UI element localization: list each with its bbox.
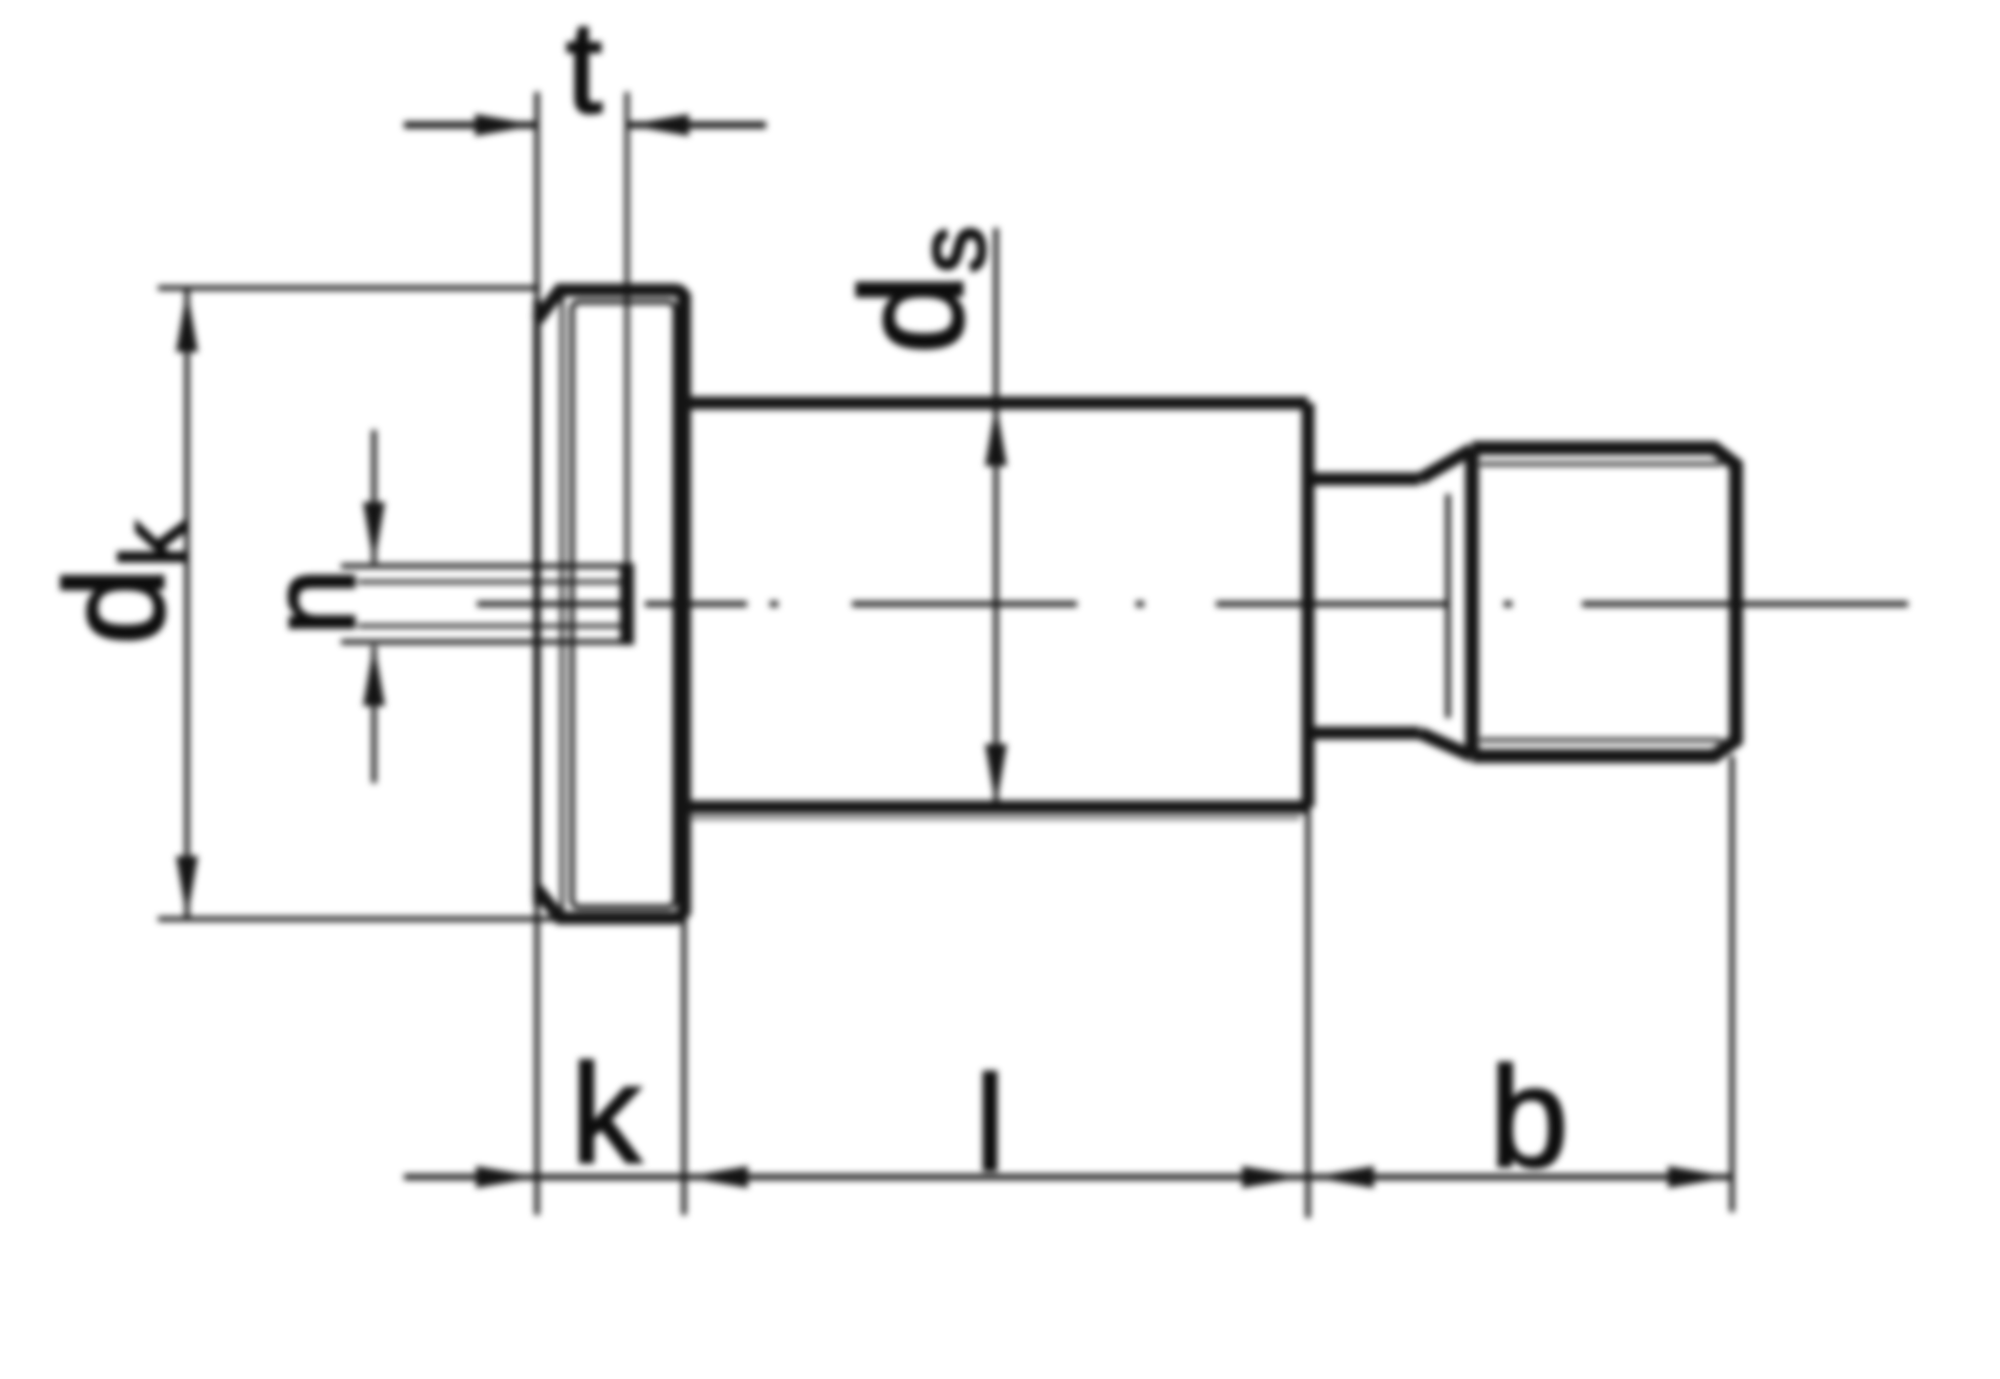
dimension n: upper arrow: [372, 430, 377, 563]
svg-text:ds: ds: [831, 226, 1005, 354]
neck top edge: [1308, 473, 1420, 486]
t extension line left (x=537, above head): [535, 92, 540, 300]
slot outer top edge: [341, 564, 627, 569]
dimension ds: dimension line: [994, 228, 999, 806]
head inner rectangle (face chamfer ring): [572, 302, 675, 907]
extension line below shoulder right face (l/b): [1306, 807, 1311, 1218]
l right arrowhead (pointing right): [1242, 1166, 1304, 1188]
dimension t: left tail with arrow: [404, 122, 537, 129]
dimension ds: upper arrowhead: [985, 404, 1007, 466]
slot bottom (bold vertical, depth t): [620, 563, 634, 645]
thread root line top: [1480, 462, 1722, 466]
head chamfer edge vertical: [560, 290, 564, 918]
svg-text:l: l: [975, 1048, 1005, 1199]
extension line below thread end (b): [1730, 756, 1735, 1212]
dimension dk: dimension line: [185, 290, 190, 918]
shoulder bottom edge: [684, 801, 1308, 814]
shoulder top edge: [684, 397, 1308, 410]
center axis (dash-dot line): [477, 601, 1908, 607]
slot inner bottom line: [358, 624, 627, 628]
b right arrowhead (pointing right): [1668, 1166, 1730, 1188]
svg-text:dk: dk: [36, 520, 205, 645]
shared arrowhead at head right face (pointing left): [686, 1166, 748, 1188]
b left arrowhead (pointing left): [1312, 1166, 1374, 1188]
dimension dk: top arrowhead: [176, 290, 198, 352]
extension line below head right face (k/l): [682, 918, 687, 1215]
slot inner top line: [358, 580, 627, 584]
head outline (silhouette with chamfered left corners): [537, 290, 684, 918]
dimension ds: label: [831, 226, 1005, 354]
svg-text:b: b: [1490, 1038, 1569, 1197]
dimension ds: lower arrowhead: [985, 744, 1007, 806]
t extension line from slot bottom: [625, 92, 630, 563]
thread start bold vertical: [1465, 448, 1479, 756]
svg-text:k: k: [571, 1035, 642, 1192]
k extension line left (x=537, below head): [535, 905, 540, 1215]
shoulder bottom inner thin line: [688, 817, 1300, 820]
k left arrowhead (outside, pointing right): [476, 1166, 538, 1188]
head face line (x=537): [533, 300, 541, 905]
shoulder right face: [1302, 403, 1315, 807]
dimension t: right tail with arrow: [627, 122, 766, 129]
bottom dimension line (k, l, b): [404, 1174, 1732, 1180]
thread outline (major diameter with chamfered end): [1472, 448, 1736, 756]
thread root line bottom: [1480, 738, 1722, 742]
dimension dk: label: [36, 520, 205, 645]
head right face emphasis: [677, 293, 691, 915]
slot outer bottom edge: [341, 640, 627, 645]
dimension n: label: [244, 568, 380, 635]
dimension n: lower arrow: [372, 646, 377, 783]
neck bottom edge: [1308, 727, 1420, 740]
dimension dk: top extension line: [158, 286, 540, 291]
dimension dk: bottom arrowhead: [176, 856, 198, 918]
neck-to-thread chamfer bottom diagonal: [1420, 733, 1472, 756]
thread chamfer thin vertical: [1446, 494, 1451, 718]
svg-text:n: n: [244, 568, 380, 635]
dimension dk: bottom extension line: [158, 917, 560, 922]
svg-text:t: t: [566, 0, 602, 140]
neck-to-thread chamfer top diagonal: [1420, 449, 1472, 479]
